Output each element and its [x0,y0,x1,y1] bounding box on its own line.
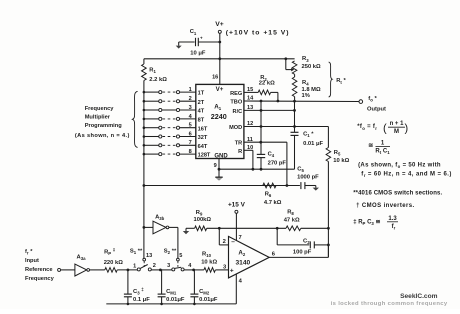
svg-text:47 kΩ: 47 kΩ [284,217,300,223]
svg-text:8T: 8T [198,118,205,124]
svg-text:16T: 16T [198,126,208,132]
svg-text:0.01 μF: 0.01 μF [303,141,323,147]
svg-text:2: 2 [153,263,156,269]
svg-text:32T: 32T [198,135,208,141]
svg-text:16: 16 [212,74,218,80]
svg-text:R: R [238,149,242,155]
svg-text:5: 5 [179,253,182,259]
svg-text:*fo = fr: *fo = fr [357,124,377,131]
svg-text:V+: V+ [215,21,224,28]
svg-text:64T: 64T [198,144,208,150]
svg-text:1T: 1T [198,91,205,97]
svg-text:1: 1 [133,263,136,269]
svg-text:2: 2 [189,96,192,102]
svg-text:fo *: fo * [368,96,377,103]
svg-text:S1 **: S1 ** [130,248,143,255]
svg-text:2240: 2240 [211,112,227,121]
svg-text:6: 6 [189,131,192,137]
svg-text:0.1 μF: 0.1 μF [133,297,150,303]
svg-text:+15 V: +15 V [228,202,246,209]
svg-text:C1 *: C1 * [303,131,314,138]
svg-text:–: – [231,239,235,246]
svg-text:5: 5 [189,123,192,129]
svg-text:R9: R9 [196,210,203,217]
svg-text:Frequency: Frequency [25,276,55,282]
svg-text:R8: R8 [287,209,294,216]
svg-text:CM2: CM2 [199,289,210,296]
svg-text:n + 1: n + 1 [390,121,405,127]
svg-text:(: ( [383,123,387,135]
svg-text:Programming: Programming [85,123,123,129]
svg-text:0.01μF: 0.01μF [166,297,185,303]
svg-text:8: 8 [189,149,192,155]
svg-text:SeekIC.com: SeekIC.com [400,293,438,300]
svg-text:10 kΩ: 10 kΩ [333,158,349,164]
svg-text:TR: TR [235,141,242,147]
svg-text:≅: ≅ [368,143,373,149]
svg-text:R10: R10 [202,252,212,259]
svg-text:3140: 3140 [236,260,251,267]
svg-text:(As shown, fo = 50 Hz with: (As shown, fo = 50 Hz with [358,163,441,170]
svg-text:10 kΩ: 10 kΩ [201,259,217,265]
svg-text:C1: C1 [190,29,197,36]
svg-text:100kΩ: 100kΩ [194,217,212,223]
svg-text:Frequency: Frequency [85,106,115,112]
svg-text:A3a: A3a [77,254,87,261]
svg-text:R5: R5 [334,150,341,157]
svg-text:A3b: A3b [155,214,165,221]
svg-text:R4: R4 [302,80,309,87]
svg-text:1%: 1% [302,93,310,99]
svg-text:Multiplier: Multiplier [85,114,111,120]
svg-text:CM1: CM1 [166,289,177,296]
svg-text:Input: Input [25,258,39,264]
svg-text:1.3: 1.3 [388,216,397,222]
svg-text:0.01μF: 0.01μF [199,297,218,303]
svg-text:C4: C4 [268,151,275,158]
svg-text:Rt *: Rt * [336,78,346,85]
svg-text:4T: 4T [198,109,205,115]
svg-text:128T: 128T [198,153,211,159]
svg-text:(As shown, n = 4.): (As shown, n = 4.) [75,133,130,139]
svg-text:R3: R3 [302,56,309,63]
svg-text:9: 9 [214,163,217,169]
svg-text:fr: fr [392,224,396,231]
svg-text:100 pF: 100 pF [293,250,312,256]
svg-text:V+: V+ [216,86,224,93]
svg-text:22 kΩ: 22 kΩ [259,81,275,87]
svg-text:3: 3 [189,105,192,111]
svg-text:is locked through common frequ: is locked through common frequency [331,301,448,307]
svg-text:2: 2 [223,239,226,245]
svg-text:3: 3 [167,263,170,269]
svg-text:Reference: Reference [25,267,53,273]
svg-text:‡ RP C3 ≅: ‡ RP C3 ≅ [353,219,380,226]
svg-text:2T: 2T [198,100,205,106]
svg-text:1: 1 [189,87,192,93]
svg-text:C2: C2 [303,238,310,245]
svg-text:C5: C5 [297,166,304,173]
svg-text:+: + [200,36,203,41]
svg-text:fr = 60 Hz, n = 4, and M = 6.): fr = 60 Hz, n = 4, and M = 6.) [361,172,451,179]
svg-text:220 kΩ: 220 kΩ [104,260,124,266]
svg-text:**4016 CMOS switch sections.: **4016 CMOS switch sections. [353,191,442,197]
svg-text:Output: Output [367,107,386,113]
svg-text:250 kΩ: 250 kΩ [302,64,322,70]
svg-text:4.7 kΩ: 4.7 kΩ [264,200,282,206]
svg-text:R/C: R/C [233,109,243,115]
svg-text:10 μF: 10 μF [190,50,206,56]
svg-text:(+10V to +15 V): (+10V to +15 V) [226,30,290,37]
svg-text:Rt C1: Rt C1 [375,148,390,155]
svg-text:GND: GND [214,153,228,159]
svg-text:R1: R1 [149,67,156,74]
svg-text:): ) [405,123,409,135]
svg-text:7: 7 [239,235,242,241]
svg-text:fr *: fr * [25,249,33,256]
svg-text:S2 **: S2 ** [164,248,177,255]
svg-text:M: M [394,129,399,135]
svg-text:270 pF: 270 pF [268,160,287,166]
svg-text:† CMOS inverters.: † CMOS inverters. [356,203,415,209]
svg-text:7: 7 [189,140,192,146]
svg-text:2.2 kΩ: 2.2 kΩ [149,77,167,83]
svg-text:R6: R6 [265,191,272,198]
svg-text:13: 13 [146,253,152,259]
svg-text:+: + [230,268,234,275]
svg-text:TBO: TBO [230,100,242,106]
svg-text:1000 pF: 1000 pF [297,175,319,181]
svg-text:REG: REG [230,91,242,97]
svg-text:MOD: MOD [229,125,242,131]
